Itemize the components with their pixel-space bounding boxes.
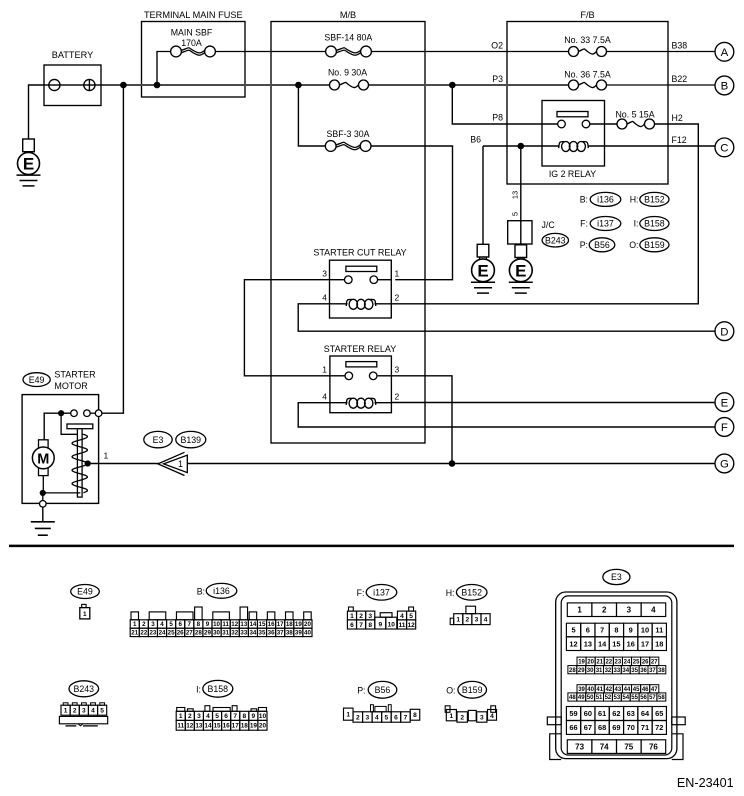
svg-text:STARTER: STARTER bbox=[54, 369, 96, 379]
svg-text:9: 9 bbox=[252, 713, 256, 720]
wire: main battery feed y=85 (thick) bbox=[44, 84, 569, 86]
svg-text:No. 36 7.5A: No. 36 7.5A bbox=[564, 69, 611, 79]
svg-text:6: 6 bbox=[178, 621, 182, 628]
svg-text:22: 22 bbox=[140, 630, 147, 637]
svg-text:P8: P8 bbox=[492, 112, 503, 122]
svg-text:B243: B243 bbox=[545, 235, 566, 245]
junction solenoid output bbox=[85, 460, 91, 466]
svg-text:SBF-3 30A: SBF-3 30A bbox=[326, 129, 369, 139]
svg-text:18: 18 bbox=[286, 621, 293, 628]
svg-text:B158: B158 bbox=[208, 684, 229, 694]
svg-text:19: 19 bbox=[578, 660, 585, 666]
svg-text:F/B: F/B bbox=[580, 10, 594, 20]
svg-text:13: 13 bbox=[584, 639, 592, 648]
svg-text:29: 29 bbox=[578, 668, 585, 674]
junction main SBF bbox=[154, 82, 161, 89]
fuse SBF-3 30A bbox=[325, 140, 371, 153]
svg-text:1: 1 bbox=[83, 611, 87, 618]
svg-text:2: 2 bbox=[188, 713, 192, 720]
svg-text:A: A bbox=[721, 47, 729, 59]
svg-text:8: 8 bbox=[614, 626, 618, 635]
svg-text:i137: i137 bbox=[597, 219, 614, 229]
svg-text:O2: O2 bbox=[491, 40, 503, 50]
svg-text:5: 5 bbox=[100, 708, 104, 715]
svg-text:1: 1 bbox=[133, 621, 137, 628]
svg-text:7: 7 bbox=[600, 626, 604, 635]
svg-text:24: 24 bbox=[624, 660, 631, 666]
svg-text:MAIN SBF: MAIN SBF bbox=[171, 27, 213, 37]
svg-text:STARTER RELAY: STARTER RELAY bbox=[324, 344, 397, 354]
svg-text:27: 27 bbox=[186, 630, 193, 637]
wire from junction to coil top bbox=[61, 413, 83, 434]
ground E battery bbox=[23, 139, 35, 152]
svg-text:31: 31 bbox=[596, 668, 603, 674]
svg-text:20: 20 bbox=[259, 723, 267, 730]
node E circle bbox=[715, 393, 734, 412]
svg-text:65: 65 bbox=[655, 709, 663, 718]
svg-text:C: C bbox=[720, 143, 728, 155]
motor M bbox=[39, 440, 49, 476]
svg-text:21: 21 bbox=[596, 660, 603, 666]
wire: starter relay pin3 down to G row bbox=[391, 376, 452, 464]
M/B fuse box bbox=[271, 22, 425, 444]
svg-text:56: 56 bbox=[640, 695, 647, 701]
svg-text:39: 39 bbox=[578, 687, 585, 693]
svg-text:B56: B56 bbox=[375, 685, 391, 695]
svg-text:68: 68 bbox=[598, 723, 606, 732]
wire: IG2 coil out to F12 to C circle bbox=[588, 145, 716, 147]
svg-text:66: 66 bbox=[569, 723, 577, 732]
svg-text:M/B: M/B bbox=[340, 10, 356, 20]
terminal main fuse box bbox=[142, 22, 246, 98]
svg-text:8: 8 bbox=[197, 621, 201, 628]
wire: B6 ground drop bbox=[482, 146, 484, 244]
svg-text:TERMINAL MAIN FUSE: TERMINAL MAIN FUSE bbox=[144, 10, 243, 20]
svg-text:50: 50 bbox=[587, 695, 594, 701]
svg-text:F:: F: bbox=[357, 588, 365, 598]
svg-text:H:: H: bbox=[446, 588, 455, 598]
svg-text:2: 2 bbox=[356, 714, 360, 721]
svg-text:3: 3 bbox=[475, 617, 479, 624]
svg-text:B139: B139 bbox=[181, 435, 202, 445]
svg-text:40: 40 bbox=[587, 687, 594, 693]
connector oval E3 (schematic) bbox=[144, 431, 172, 447]
svg-text:P3: P3 bbox=[492, 74, 503, 84]
svg-text:2: 2 bbox=[395, 293, 400, 303]
svg-text:17: 17 bbox=[232, 723, 240, 730]
svg-text:4: 4 bbox=[206, 713, 210, 720]
svg-text:I:: I: bbox=[196, 684, 201, 694]
svg-text:12: 12 bbox=[186, 723, 194, 730]
svg-text:16: 16 bbox=[268, 621, 275, 628]
svg-text:D: D bbox=[720, 326, 728, 338]
svg-text:17: 17 bbox=[641, 639, 649, 648]
svg-text:8: 8 bbox=[368, 622, 372, 629]
wire: main SBF branch bbox=[157, 52, 171, 86]
svg-text:16: 16 bbox=[223, 723, 231, 730]
wire: No.36 fuse output to B circle bbox=[606, 84, 715, 86]
svg-text:41: 41 bbox=[596, 687, 603, 693]
connector B243 pinout bbox=[69, 681, 99, 697]
svg-text:I:: I: bbox=[634, 219, 639, 229]
connector oval B139 (schematic) bbox=[176, 431, 206, 447]
svg-text:27: 27 bbox=[651, 660, 658, 666]
wire: battery minus to ground bbox=[29, 85, 45, 139]
svg-text:4: 4 bbox=[400, 613, 404, 620]
wire: cut relay pin3 to starter relay pin1 bbox=[244, 280, 329, 376]
svg-text:38: 38 bbox=[658, 668, 665, 674]
fuse No.33 7.5A bbox=[569, 45, 607, 58]
svg-text:47: 47 bbox=[651, 687, 658, 693]
wire: SBF-3 branch bbox=[298, 85, 325, 146]
svg-text:3: 3 bbox=[322, 269, 327, 279]
svg-text:37: 37 bbox=[277, 630, 284, 637]
svg-text:57: 57 bbox=[649, 695, 656, 701]
starter motor contact circles bbox=[71, 410, 78, 417]
node A circle bbox=[715, 42, 734, 61]
battery box bbox=[44, 65, 101, 106]
svg-text:2: 2 bbox=[460, 715, 464, 722]
svg-text:11: 11 bbox=[222, 621, 229, 628]
starter relay contact circles bbox=[330, 375, 345, 377]
svg-text:J/C: J/C bbox=[542, 220, 556, 230]
svg-text:35: 35 bbox=[631, 668, 638, 674]
svg-text:20: 20 bbox=[304, 621, 311, 628]
starter motor box bbox=[22, 395, 99, 504]
svg-text:48: 48 bbox=[569, 695, 576, 701]
wire: J/C drop bbox=[520, 146, 522, 245]
J/C box bbox=[508, 221, 532, 244]
wire: starter relay pin2 to E bbox=[391, 402, 715, 404]
node F circle bbox=[715, 418, 734, 437]
svg-text:3: 3 bbox=[627, 606, 632, 615]
svg-text:B: B bbox=[721, 81, 729, 93]
junction B6 J/C bbox=[518, 143, 525, 150]
svg-text:4: 4 bbox=[484, 617, 488, 624]
svg-text:4: 4 bbox=[322, 293, 327, 303]
svg-text:B22: B22 bbox=[672, 74, 688, 84]
svg-text:6: 6 bbox=[350, 622, 354, 629]
relay IG 2 RELAY box bbox=[542, 101, 605, 167]
svg-text:3: 3 bbox=[480, 715, 484, 722]
wire: cut relay pin4 loop to D bbox=[298, 304, 715, 331]
svg-text:2: 2 bbox=[142, 621, 146, 628]
starter cut relay coil bbox=[330, 303, 348, 305]
svg-text:52: 52 bbox=[605, 695, 612, 701]
svg-text:11: 11 bbox=[399, 622, 406, 629]
svg-text:7: 7 bbox=[404, 714, 408, 721]
svg-text:13: 13 bbox=[195, 723, 203, 730]
svg-text:11: 11 bbox=[177, 723, 184, 730]
svg-text:9: 9 bbox=[378, 622, 382, 629]
svg-text:B159: B159 bbox=[462, 685, 483, 695]
svg-text:E: E bbox=[515, 261, 526, 280]
svg-text:49: 49 bbox=[578, 695, 585, 701]
svg-text:B243: B243 bbox=[74, 684, 95, 694]
svg-text:16: 16 bbox=[627, 639, 635, 648]
fuse No.36 7.5A bbox=[569, 79, 607, 92]
svg-text:21: 21 bbox=[131, 630, 138, 637]
svg-text:5: 5 bbox=[511, 212, 520, 216]
svg-text:10: 10 bbox=[213, 621, 220, 628]
junction starter branch bbox=[120, 82, 127, 89]
svg-text:76: 76 bbox=[649, 742, 658, 751]
svg-text:11: 11 bbox=[655, 626, 663, 635]
svg-text:28: 28 bbox=[195, 630, 202, 637]
svg-text:35: 35 bbox=[259, 630, 266, 637]
svg-text:8: 8 bbox=[413, 712, 417, 719]
svg-text:4: 4 bbox=[375, 714, 379, 721]
svg-text:18: 18 bbox=[241, 723, 249, 730]
svg-text:15: 15 bbox=[214, 723, 222, 730]
wire: row O2/B38 y=51.5 bbox=[215, 51, 568, 53]
svg-text:1: 1 bbox=[456, 617, 460, 624]
wire: branch to starter motor bbox=[102, 85, 124, 413]
connector oval B243 (schematic) bbox=[542, 233, 568, 247]
svg-text:3: 3 bbox=[368, 613, 372, 620]
svg-text:37: 37 bbox=[649, 668, 656, 674]
svg-text:F12: F12 bbox=[672, 135, 687, 145]
svg-text:26: 26 bbox=[642, 660, 649, 666]
svg-text:1: 1 bbox=[179, 713, 183, 720]
wire: motor bottom bbox=[42, 476, 44, 493]
svg-text:STARTER CUT RELAY: STARTER CUT RELAY bbox=[313, 248, 406, 258]
IG2 relay contact bar bbox=[557, 112, 588, 117]
svg-text:15: 15 bbox=[612, 639, 620, 648]
svg-text:58: 58 bbox=[658, 695, 665, 701]
svg-text:1: 1 bbox=[104, 450, 109, 460]
svg-text:60: 60 bbox=[584, 709, 592, 718]
svg-text:F: F bbox=[721, 422, 728, 434]
starter motor internal top wire bbox=[44, 413, 71, 440]
svg-text:5: 5 bbox=[385, 714, 389, 721]
arrow connector 1 bbox=[164, 455, 188, 472]
svg-text:24: 24 bbox=[159, 630, 166, 637]
solenoid plunger T bar bbox=[67, 424, 93, 429]
svg-text:33: 33 bbox=[614, 668, 621, 674]
svg-text:20: 20 bbox=[587, 660, 594, 666]
svg-text:4: 4 bbox=[651, 606, 656, 615]
svg-text:44: 44 bbox=[624, 687, 631, 693]
svg-text:14: 14 bbox=[204, 723, 212, 730]
svg-text:E49: E49 bbox=[77, 587, 93, 597]
svg-text:72: 72 bbox=[655, 723, 663, 732]
node G circle bbox=[715, 454, 734, 473]
svg-text:1: 1 bbox=[449, 713, 453, 720]
fuse No.5 15A bbox=[617, 118, 655, 131]
svg-text:4: 4 bbox=[490, 713, 494, 720]
svg-text:71: 71 bbox=[641, 723, 649, 732]
svg-text:53: 53 bbox=[614, 695, 621, 701]
svg-text:5: 5 bbox=[169, 621, 173, 628]
svg-text:IG 2 RELAY: IG 2 RELAY bbox=[549, 169, 596, 179]
svg-text:38: 38 bbox=[286, 630, 293, 637]
starter cut relay contact circles bbox=[330, 279, 345, 281]
svg-text:51: 51 bbox=[596, 695, 603, 701]
wire: starter relay pin4 loop to F bbox=[298, 403, 715, 427]
svg-text:26: 26 bbox=[177, 630, 184, 637]
wire: motor bottom to solenoid bottom bbox=[43, 492, 81, 494]
svg-text:3: 3 bbox=[197, 713, 201, 720]
node C circle bbox=[715, 138, 734, 157]
svg-text:23: 23 bbox=[615, 660, 622, 666]
svg-text:32: 32 bbox=[231, 630, 238, 637]
starter motor ground bbox=[42, 507, 44, 522]
wire: H2 to starter cut relay pin2 bbox=[391, 124, 698, 304]
svg-text:4: 4 bbox=[322, 392, 327, 402]
svg-text:3: 3 bbox=[151, 621, 155, 628]
fuse SBF-14 80A bbox=[326, 45, 372, 58]
svg-text:BATTERY: BATTERY bbox=[52, 50, 94, 60]
junction motor bottom bbox=[40, 490, 46, 496]
svg-text:1: 1 bbox=[350, 613, 354, 620]
svg-text:69: 69 bbox=[612, 723, 620, 732]
svg-text:3: 3 bbox=[395, 365, 400, 375]
junction SBF-3 branch bbox=[295, 82, 302, 89]
svg-text:73: 73 bbox=[575, 742, 584, 751]
junction G row bbox=[449, 460, 456, 467]
svg-text:i136: i136 bbox=[597, 195, 614, 205]
svg-text:6: 6 bbox=[224, 713, 228, 720]
svg-text:17: 17 bbox=[277, 621, 284, 628]
svg-text:2: 2 bbox=[395, 392, 400, 402]
svg-text:4: 4 bbox=[91, 708, 95, 715]
svg-text:64: 64 bbox=[641, 709, 650, 718]
svg-text:10: 10 bbox=[259, 713, 267, 720]
svg-text:45: 45 bbox=[633, 687, 640, 693]
svg-text:SBF-14 80A: SBF-14 80A bbox=[324, 33, 372, 43]
wire: solenoid to arrow bbox=[88, 463, 160, 465]
svg-text:B158: B158 bbox=[644, 219, 665, 229]
svg-text:54: 54 bbox=[622, 695, 629, 701]
svg-text:E3: E3 bbox=[153, 435, 164, 445]
node D circle bbox=[715, 322, 734, 341]
svg-text:40: 40 bbox=[304, 630, 311, 637]
svg-text:10: 10 bbox=[388, 622, 396, 629]
svg-text:1: 1 bbox=[64, 708, 68, 715]
svg-text:33: 33 bbox=[240, 630, 247, 637]
wire: P8 branch from main bbox=[452, 85, 557, 124]
svg-text:14: 14 bbox=[249, 621, 256, 628]
svg-text:2: 2 bbox=[466, 617, 470, 624]
svg-text:2: 2 bbox=[73, 708, 77, 715]
solenoid coil spiral bbox=[72, 434, 87, 493]
svg-text:B:: B: bbox=[580, 195, 588, 205]
svg-text:B159: B159 bbox=[644, 240, 665, 250]
svg-text:19: 19 bbox=[295, 621, 302, 628]
svg-text:70: 70 bbox=[627, 723, 635, 732]
svg-text:13: 13 bbox=[511, 191, 520, 199]
wire: SBF-3 output to starter cut relay pin1 bbox=[371, 146, 453, 280]
svg-text:No. 33 7.5A: No. 33 7.5A bbox=[564, 35, 611, 45]
svg-text:5: 5 bbox=[409, 613, 413, 620]
svg-text:E3: E3 bbox=[611, 572, 622, 582]
svg-text:12: 12 bbox=[407, 622, 415, 629]
svg-text:39: 39 bbox=[295, 630, 302, 637]
svg-text:B152: B152 bbox=[461, 587, 482, 597]
wire: G row bbox=[188, 463, 716, 465]
svg-text:29: 29 bbox=[204, 630, 211, 637]
IG2 relay contact circles bbox=[558, 120, 566, 128]
svg-text:34: 34 bbox=[622, 668, 629, 674]
svg-text:12: 12 bbox=[569, 639, 577, 648]
svg-text:B38: B38 bbox=[672, 40, 688, 50]
svg-text:G: G bbox=[720, 459, 729, 471]
svg-text:1: 1 bbox=[178, 459, 183, 469]
svg-text:75: 75 bbox=[624, 742, 633, 751]
svg-text:B6: B6 bbox=[470, 134, 481, 144]
svg-text:55: 55 bbox=[631, 695, 638, 701]
svg-text:6: 6 bbox=[394, 714, 398, 721]
junction top wire bbox=[58, 410, 64, 416]
svg-text:i137: i137 bbox=[373, 587, 390, 597]
svg-text:30: 30 bbox=[587, 668, 594, 674]
svg-text:P:: P: bbox=[580, 240, 588, 250]
svg-text:74: 74 bbox=[600, 742, 609, 751]
svg-text:5: 5 bbox=[215, 713, 219, 720]
svg-text:B56: B56 bbox=[594, 240, 610, 250]
svg-text:59: 59 bbox=[569, 709, 577, 718]
svg-text:E: E bbox=[23, 155, 34, 174]
ground E (B6) bbox=[477, 244, 489, 257]
svg-text:1: 1 bbox=[395, 269, 400, 279]
svg-text:34: 34 bbox=[249, 630, 256, 637]
svg-text:42: 42 bbox=[605, 687, 612, 693]
starter relay contact bar bbox=[346, 362, 377, 367]
svg-text:18: 18 bbox=[655, 639, 663, 648]
IG2 relay contact wire right bbox=[590, 123, 617, 125]
svg-text:E: E bbox=[477, 261, 488, 280]
svg-text:36: 36 bbox=[640, 668, 647, 674]
svg-text:61: 61 bbox=[598, 709, 606, 718]
F/B fuse box bbox=[507, 22, 668, 185]
svg-text:23: 23 bbox=[149, 630, 156, 637]
svg-text:43: 43 bbox=[615, 687, 622, 693]
fuse MAIN SBF 170A bbox=[171, 45, 216, 58]
svg-text:2: 2 bbox=[359, 613, 363, 620]
fuse No.9 30A bbox=[330, 79, 369, 92]
battery minus terminal bbox=[49, 79, 60, 90]
svg-text:1: 1 bbox=[322, 365, 327, 375]
svg-text:25: 25 bbox=[168, 630, 175, 637]
svg-text:63: 63 bbox=[627, 709, 635, 718]
svg-text:O:: O: bbox=[629, 240, 638, 250]
svg-text:F:: F: bbox=[580, 219, 588, 229]
svg-text:E: E bbox=[721, 397, 729, 409]
junction P8 branch bbox=[449, 82, 456, 89]
svg-text:19: 19 bbox=[250, 723, 258, 730]
svg-text:B152: B152 bbox=[644, 195, 665, 205]
wire to case ground bbox=[42, 493, 44, 501]
svg-text:B:: B: bbox=[197, 586, 205, 596]
svg-text:1: 1 bbox=[346, 712, 350, 719]
svg-text:170A: 170A bbox=[181, 38, 202, 48]
svg-text:14: 14 bbox=[598, 639, 607, 648]
svg-text:30: 30 bbox=[213, 630, 220, 637]
svg-text:1: 1 bbox=[577, 606, 582, 615]
svg-text:7: 7 bbox=[359, 622, 363, 629]
svg-text:9: 9 bbox=[629, 626, 633, 635]
svg-text:22: 22 bbox=[605, 660, 612, 666]
svg-text:67: 67 bbox=[584, 723, 592, 732]
connector oval E49 (schematic) bbox=[23, 373, 50, 387]
svg-text:13: 13 bbox=[240, 621, 247, 628]
wire: B6 row to IG2 coil and ground branch bbox=[483, 145, 560, 147]
svg-text:36: 36 bbox=[268, 630, 275, 637]
svg-text:46: 46 bbox=[642, 687, 649, 693]
svg-text:E49: E49 bbox=[29, 375, 45, 385]
svg-text:O:: O: bbox=[446, 685, 455, 695]
